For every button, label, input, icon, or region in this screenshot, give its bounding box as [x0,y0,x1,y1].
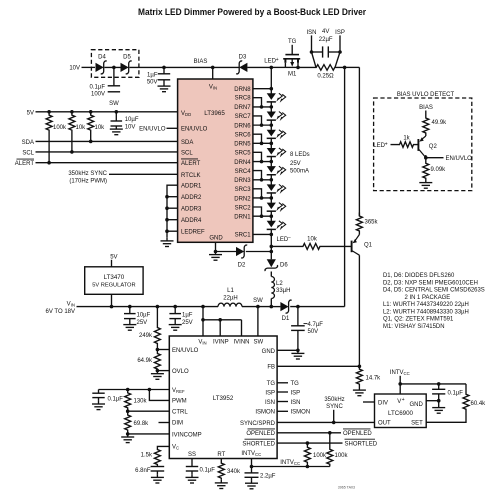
svg-text:+: + [402,397,405,403]
node CTRL junction [126,409,130,413]
svg-text:D1, D6: DIODES DFLS260: D1, D6: DIODES DFLS260 [383,273,455,279]
wire INTVCC pin down [251,459,253,467]
resistor 60.4k [465,384,467,392]
node GND junction [296,349,300,353]
svg-text:9.09k: 9.09k [431,167,447,173]
LED 3 of matrix string [267,130,276,137]
svg-text:10k: 10k [76,125,87,131]
svg-text:25V: 25V [137,320,148,326]
svg-text:DRN4: DRN4 [234,160,251,166]
svg-text:10µF: 10µF [125,117,139,123]
wire DRN3 stub to chain node [253,179,271,181]
capacitor 4.7uF 50V [297,307,299,326]
svg-text:340k: 340k [227,469,241,475]
svg-text:1µF: 1µF [147,72,158,78]
wire DRN4 stub to chain node [253,161,271,163]
wire ALERT line [36,162,178,164]
svg-text:SW: SW [253,298,263,304]
svg-text:1µF: 1µF [182,312,193,318]
wire IVINP stub [219,320,221,336]
node LED chain junction 6 [270,196,274,200]
LED 6 of matrix string [267,184,276,191]
wire DRN6 stub to chain node [253,124,271,126]
voltage regulator U2 LT3470 box [85,267,143,295]
wire LT3952 GND stub [277,349,298,351]
svg-text:10V: 10V [69,66,80,72]
wire vertical from rail corner down to 365k [358,67,360,216]
ground below 69.8k [127,434,129,437]
node stub junction 4 [260,160,264,164]
svg-text:ALERT: ALERT [15,161,35,167]
svg-text:ALERT: ALERT [181,161,201,167]
svg-text:TG: TG [267,381,276,387]
svg-text:FB: FB [267,365,275,371]
op-amp U1 LT3965 matrix dimmer IC body [178,79,253,242]
svg-text:0.1µF: 0.1µF [200,468,216,474]
svg-text:1.5k: 1.5k [141,453,153,459]
wire SRC5 stub [253,152,262,161]
resistor 365k [356,213,362,235]
dual diode package D4 D5 dashed outline [91,50,138,78]
ground below 340k [220,480,222,483]
wire SRC2 stub [253,207,262,216]
wire BIAS to 49.9k [425,111,427,116]
wire boost output vertical down to D1 output [344,67,346,306]
transistor Q2 PNP [417,139,419,151]
resistor 100k on OPENLED [329,433,331,447]
svg-text:SYNC: SYNC [326,404,343,410]
wire SW pin drop [257,307,259,336]
LED 4 of matrix string [267,148,276,155]
svg-text:ADDR3: ADDR3 [181,207,202,213]
wire RT pin down [220,459,222,462]
svg-text:0.1µF: 0.1µF [448,391,464,397]
svg-text:OPENLED: OPENLED [246,431,275,437]
svg-text:GND: GND [209,236,223,242]
svg-text:M1: M1 [288,71,297,77]
svg-text:50V: 50V [308,329,319,335]
svg-text:DRN7: DRN7 [234,105,251,111]
resistor 249k [154,307,160,350]
svg-text:350kHz: 350kHz [324,397,344,403]
LED 8 of matrix string [267,221,276,228]
svg-text:L1: WURTH 74437349220 22µH: L1: WURTH 74437349220 22µH [383,302,469,308]
svg-text:Matrix LED Dimmer Powered by a: Matrix LED Dimmer Powered by a Boost-Buc… [138,7,366,17]
svg-text:22µH: 22µH [223,295,237,301]
wire ISP stub [277,391,288,393]
inductor L2 33uH [270,272,272,277]
wire VIN rail [77,306,219,308]
ground below 10uF 25V [129,322,131,325]
node stub junction 5 [260,178,264,182]
svg-text:6.8nF: 6.8nF [135,468,151,474]
node stub junction 6 [260,196,264,200]
node LED- junction [270,233,274,237]
wire INTVCC rail right [400,383,466,385]
capacitor 2.2uF on INTVCC [251,467,253,473]
wire ISN diagonal to sense resistor [312,52,317,67]
oscillator U4 LTC6900 box [375,394,427,428]
svg-text:49.9k: 49.9k [432,120,448,126]
wire Q1 collector down to FB node [358,255,360,366]
resistor 14.7k [356,366,362,387]
capacitor 0.1uF bypass [438,384,440,389]
svg-text:14.7k: 14.7k [366,376,382,382]
svg-text:LT3470: LT3470 [104,274,125,281]
svg-text:ADDR2: ADDR2 [181,195,202,201]
node L2/D1 junction on SW rail [270,305,274,309]
node LED chain junction 2 [270,123,274,127]
svg-text:RT: RT [217,452,225,458]
ground below VREF cap [98,401,100,404]
node 249k junction on VIN rail [156,305,160,309]
svg-text:VIN: VIN [198,340,206,346]
svg-text:10k: 10k [307,237,318,243]
svg-text:350kHz SYNC: 350kHz SYNC [68,171,107,177]
resistor 9.09k [423,162,429,180]
node stub junction 7 [260,214,264,218]
svg-text:VIN: VIN [67,302,75,308]
ground below 64.9k [156,371,158,374]
svg-text:0.1µF: 0.1µF [90,84,106,90]
svg-text:500mA: 500mA [290,169,309,175]
ground below 9.09k [425,180,427,183]
svg-text:Q1, Q2: ZETEX FMMT591: Q1, Q2: ZETEX FMMT591 [383,317,454,323]
node V+ junction [398,382,402,386]
node OPENLED junction [328,431,332,435]
svg-text:Q1: Q1 [364,243,373,249]
svg-text:INTVCC: INTVCC [241,451,261,457]
svg-text:IVINCOMP: IVINCOMP [172,432,202,438]
wire VREF line [99,389,170,391]
svg-text:130k: 130k [134,398,148,404]
svg-text:OVLO: OVLO [172,369,189,375]
ground below 1uF cap [163,83,165,86]
wire 5V rail to VDD [36,111,178,113]
wire SHORTLED line [277,442,342,444]
node VIN pin junction [201,305,205,309]
svg-text:BIAS: BIAS [194,59,208,65]
svg-text:RTCLK: RTCLK [181,173,201,179]
wire 365k top segment [358,215,360,217]
resistor 64.9k [154,350,160,371]
svg-text:VDD: VDD [181,111,191,117]
wire EN/UVLO stub from 249k/64.9k junction [157,349,169,351]
diode D6 [267,259,276,267]
wire LED+ to M1 source [271,66,285,68]
wire SRC1 stub to LED- node [253,233,271,235]
svg-text:69.8k: 69.8k [134,421,150,427]
svg-text:IVINP: IVINP [213,340,229,346]
wire SCL line [36,151,178,153]
svg-text:DIM: DIM [172,421,183,427]
wire INTVCC drop to V+ [399,376,401,394]
node FB junction [358,365,362,369]
ground below 2.2uF [251,480,253,483]
node bus junctions [201,318,205,322]
node junction between D4 and D5 [112,66,116,70]
wire DRN7 stub to chain node [253,106,271,108]
ground below 1uF 25V [174,322,176,325]
wire SRC6 stub [253,134,262,143]
svg-text:SW: SW [253,340,263,346]
svg-text:IVINN: IVINN [233,340,249,346]
resistor 100k on SHORTLED [304,443,310,466]
wire TG stub [277,382,288,384]
wire DRN2 stub to chain node [253,197,271,199]
svg-text:1k: 1k [403,135,410,141]
node 10k branch junction [270,245,274,249]
svg-text:100V: 100V [91,92,105,98]
wire OVLO stub [157,370,169,372]
svg-text:VREF: VREF [172,388,185,394]
inductor L1 22uH [218,303,242,306]
node GND stub junction [437,399,441,403]
svg-text:M1: VISHAY Si7415DN: M1: VISHAY Si7415DN [383,324,445,330]
svg-text:SRC1: SRC1 [235,233,252,239]
node EN/UVLO divider junction [156,348,160,352]
svg-text:INTVCC: INTVCC [390,370,410,376]
resistor 0.25 ohm sense [298,65,345,71]
svg-text:SRC8: SRC8 [235,96,252,102]
wire FB line [277,365,359,367]
wire BIAS rail [164,66,213,68]
wire D1 cathode to output node [290,306,344,308]
svg-text:LEDREF: LEDREF [181,230,205,236]
svg-text:0.25Ω: 0.25Ω [317,74,334,80]
svg-text:ISMON: ISMON [255,410,275,416]
capacitor 10uF 10V on 5V rail [115,112,117,121]
svg-text:CTRL: CTRL [172,409,188,415]
svg-text:8 LEDs: 8 LEDs [290,152,310,158]
svg-text:2.2µF: 2.2µF [260,474,276,480]
node LED chain top junction [270,87,274,91]
svg-text:33µH: 33µH [276,288,290,294]
node ADDR bus junctions [165,195,169,199]
svg-text:SRC2: SRC2 [235,205,252,211]
capacitor 0.1uF 100V to SW net [113,67,115,85]
svg-text:ISN: ISN [291,400,301,406]
svg-text:DRN3: DRN3 [234,178,251,184]
wire IVINCOMP line [128,433,170,435]
capacitor 1uF 50V on BIAS rail [162,66,166,70]
node LED chain junction 4 [270,160,274,164]
wire IVINN stub [241,320,243,336]
svg-text:DRN5: DRN5 [234,142,251,148]
diode D2 [236,247,244,256]
svg-text:5V REGULATOR: 5V REGULATOR [92,283,135,289]
node boost output cap junction [296,305,300,309]
node Q2 collector junction [425,155,427,162]
svg-text:VC: VC [172,445,179,451]
svg-text:ISP: ISP [291,390,301,396]
svg-text:+: + [385,142,388,148]
node stub junction 3 [260,142,264,146]
wire under M1 [285,66,298,68]
svg-text:OUT: OUT [378,421,391,427]
wire GND stub LTC6900 [426,400,439,402]
resistor 49.9k [423,115,429,136]
wire BIAS junction to D3 [213,66,240,68]
node 5V rail junctions [47,110,51,114]
svg-text:TG: TG [291,381,300,387]
svg-text:2 IN 1 PACKAGE: 2 IN 1 PACKAGE [405,295,451,301]
resistor 1.5k [154,448,160,467]
resistor 130k [125,390,131,412]
capacitor 0.1uF on VREF [98,390,100,394]
BIAS UVLO DETECT dashed box [374,98,472,191]
svg-text:SRC4: SRC4 [235,169,252,175]
svg-text:LT3952: LT3952 [213,395,234,402]
svg-text:L2: WURTH 74408943330 33µH: L2: WURTH 74408943330 33µH [383,309,469,315]
svg-text:TG: TG [288,39,297,45]
wire D3 to LED+ node [247,66,271,68]
resistor 10k to Q1 base [271,243,351,249]
svg-text:SS: SS [188,452,196,458]
node GND junction [214,250,218,254]
wire ISN stub [277,401,288,403]
wire IVINP/IVINN bus [203,319,242,321]
svg-text:D4, D5: CENTRAL SEMI CMSD6263S: D4, D5: CENTRAL SEMI CMSD6263S [383,288,485,294]
svg-text:(170Hz PWM): (170Hz PWM) [69,178,107,184]
ground below 4.7uF [297,350,299,353]
svg-text:SDA: SDA [181,140,193,146]
svg-text:D2, D3: NXP SEMI PMEG6010CEH: D2, D3: NXP SEMI PMEG6010CEH [383,280,478,286]
node VIN rail junction at regulator [110,305,114,309]
wire LED+ vertical into LED chain [270,67,272,88]
svg-text:−: − [288,235,291,241]
ground below LT3965 GND [215,252,217,255]
svg-text:100k: 100k [313,453,327,459]
LED 2 of matrix string [267,112,276,119]
svg-text:EN/UVLO: EN/UVLO [139,127,166,133]
wire DRN1 stub to chain node [253,215,271,217]
svg-text:DRN2: DRN2 [234,196,251,202]
wire RTCLK line [109,173,178,175]
wire CTRL line [128,410,170,412]
wire SRC8 stub [253,98,262,107]
wire 100k to ALERT line [48,134,50,163]
svg-text:SDA: SDA [22,140,34,146]
ground below 10uF [115,126,117,129]
resistor 69.8k [125,411,131,434]
node 0.1uF junction [437,382,441,386]
svg-text:SRC7: SRC7 [235,114,252,120]
svg-text:50V: 50V [147,80,158,86]
svg-text:60.4k: 60.4k [471,401,487,407]
svg-text:PWM: PWM [172,399,187,405]
svg-text:10V: 10V [125,124,136,130]
svg-text:BIAS: BIAS [419,105,433,111]
wire LT3965 GND pin down [215,242,217,251]
svg-text:100k: 100k [335,453,349,459]
node SYNC junction [332,421,336,425]
wire D2 cathode to LED- vertical [246,251,271,253]
svg-text:ISP: ISP [265,390,275,396]
svg-text:64.9k: 64.9k [137,358,153,364]
capacitor 0.1uF on SS [186,466,198,468]
wire rail end corner to 365k chain [345,66,360,68]
svg-text:EN/UVLO: EN/UVLO [181,127,208,133]
svg-text:D6: D6 [280,263,288,269]
svg-text:DRN1: DRN1 [234,215,251,221]
svg-text:0.1µF: 0.1µF [108,397,124,403]
LED 1 of matrix string [267,93,276,100]
svg-text:LTC6900: LTC6900 [388,410,414,417]
resistor 1k [391,142,418,148]
wire 5V to regulator top [111,260,113,267]
svg-text:5V: 5V [27,110,34,116]
ground below 14.7k [358,387,360,390]
svg-text:GND: GND [409,402,423,408]
svg-text:SHORTLED: SHORTLED [242,441,275,447]
wire SRC7 stub [253,116,262,125]
svg-text:DRN6: DRN6 [234,123,251,129]
svg-text:SRC3: SRC3 [235,187,252,193]
svg-text:ISN: ISN [306,30,316,36]
wire DIV stub [363,401,375,403]
svg-text:4.7µF: 4.7µF [308,322,324,328]
wire regulator bottom to VIN rail [111,294,113,306]
svg-text:ISP: ISP [335,30,345,36]
svg-text:SYNC/SPRD: SYNC/SPRD [240,421,276,427]
svg-text:SCL: SCL [22,150,34,156]
wire DRN5 stub to chain node [253,142,271,144]
node VREF junctions [126,388,130,392]
resistor 100k pullup (ALERT) [46,112,52,134]
svg-text:249k: 249k [139,333,153,339]
svg-text:SCL: SCL [181,150,193,156]
svg-text:+: + [276,57,279,63]
svg-text:SHORTLED: SHORTLED [345,441,378,447]
wire SS pin down [191,459,193,467]
svg-text:100k: 100k [53,125,67,131]
wire PWM branch [149,390,169,401]
svg-text:D5: D5 [123,55,131,61]
svg-text:L2: L2 [276,281,283,287]
wire 10V to D4 [82,66,96,68]
wire SYNC drop [333,410,335,423]
svg-text:L1: L1 [227,288,234,294]
svg-text:LT3965: LT3965 [204,110,225,117]
svg-text:5V: 5V [110,254,117,260]
node SW pin junction [256,305,260,309]
wire EN/UVLO from Q2 collector [426,157,444,159]
svg-text:OPENLED: OPENLED [343,431,372,437]
svg-text:25V: 25V [182,320,193,326]
LED 5 of matrix string [267,166,276,173]
op-amp U3 LT3952 LED driver IC body [169,336,277,459]
capacitor 6.8nF [151,466,165,468]
wire 10k to SCL line [71,134,73,152]
svg-text:ADDR4: ADDR4 [181,218,202,224]
svg-text:3965 TA03: 3965 TA03 [338,486,355,490]
wire SRC4 stub [253,171,262,180]
node OVLO junction [156,369,160,373]
wire EN/UVLO stub [167,127,178,129]
svg-text:365k: 365k [365,220,379,226]
node boost output junction [343,66,347,70]
svg-text:D1: D1 [282,316,290,322]
svg-text:EN/UVLO: EN/UVLO [172,348,199,354]
wire OPENLED line [277,432,341,434]
LED 7 of matrix string [267,203,276,210]
svg-text:6V TO 18V: 6V TO 18V [46,309,75,315]
svg-text:ISN: ISN [265,400,275,406]
wire DRN8 stub to chain [253,88,271,90]
svg-text:DIV: DIV [378,400,388,406]
wire D5 cathode to BIAS rail [130,66,165,68]
